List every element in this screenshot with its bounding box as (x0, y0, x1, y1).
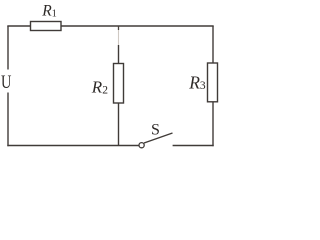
resistor R3 (208, 63, 218, 102)
svg-text:S: S (151, 122, 160, 139)
label U (1, 72, 12, 93)
label R3 (188, 72, 206, 92)
wire top right segment (61, 25, 214, 27)
resistor R2 (114, 64, 124, 104)
label R2 (91, 78, 108, 97)
resistor R1 (31, 22, 62, 31)
wire bottom left segment (7, 145, 139, 147)
wire left vertical lower segment (7, 93, 9, 147)
wire R2 lower lead (118, 103, 120, 146)
switch S blade (144, 133, 173, 143)
wire top left segment (7, 25, 30, 27)
wire right vertical lower segment (212, 102, 214, 146)
wire right vertical upper segment (212, 26, 214, 64)
label S (151, 122, 160, 139)
wire bottom right segment (173, 145, 214, 147)
svg-text:U: U (1, 72, 12, 93)
wire R2 upper lead faint part (118, 26, 120, 45)
switch S pivot circle (139, 143, 144, 148)
label R1 (41, 3, 57, 20)
wire left vertical upper segment (7, 26, 9, 70)
wire R2 upper lead (118, 45, 120, 64)
